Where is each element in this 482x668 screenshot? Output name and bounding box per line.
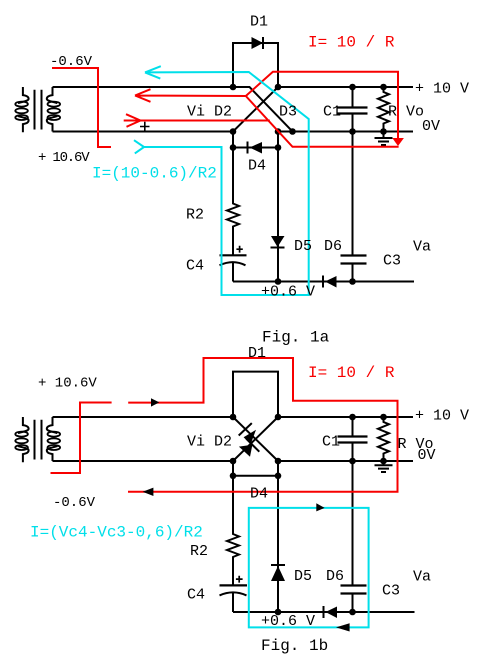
diode D5 (fig 1a) <box>271 236 285 248</box>
svg-text:+0.6 V: +0.6 V <box>261 613 315 630</box>
svg-text:Va: Va <box>413 239 431 256</box>
resistor R (fig 1b) <box>378 417 389 461</box>
wire D1 branch (fig 1a) <box>233 43 278 87</box>
svg-text:D1: D1 <box>248 345 266 362</box>
ground (fig 1b) <box>375 461 393 472</box>
svg-text:0V: 0V <box>422 118 440 135</box>
svg-text:D4: D4 <box>250 486 268 503</box>
svg-text:C4: C4 <box>186 258 204 275</box>
svg-text:R Vo: R Vo <box>388 104 424 121</box>
cyan arrow left (fig 1a) <box>145 66 161 78</box>
wire D5 branch (fig 1a) <box>277 148 279 282</box>
svg-text:I=(10-0.6)/R2: I=(10-0.6)/R2 <box>92 165 217 183</box>
plus sign near red arrow (fig 1a) <box>140 122 150 131</box>
resistor R (fig 1a) <box>378 87 389 132</box>
diode D6 (fig 1b) <box>324 606 338 618</box>
diode D4 (fig 1a) <box>248 142 263 154</box>
cyan loop around R2 branch (fig 1a) <box>144 72 309 295</box>
wire 0V rail (fig 1a) <box>278 131 413 133</box>
wire D4 rung (fig 1a) <box>233 147 278 149</box>
capacitor C3 (fig 1b) <box>341 586 367 613</box>
transformer T1 (fig 1a) <box>15 87 60 132</box>
svg-text:C3: C3 <box>383 253 401 270</box>
wire stubs to D4 wire (fig 1b) <box>233 461 278 476</box>
capacitor C4 (fig 1a) <box>220 246 247 282</box>
red bracket +10.6V/-0.6V (fig 1b) <box>51 403 112 474</box>
junction dots (fig 1b) <box>230 414 387 616</box>
svg-text:Fig. 1b: Fig. 1b <box>261 637 328 655</box>
diode D2 upper symbol on bridge (fig 1b) <box>239 423 256 444</box>
wire top-left rail (fig 1b) <box>53 416 234 418</box>
diode D6 (fig 1a) <box>323 276 337 288</box>
svg-text:C1: C1 <box>323 104 341 121</box>
resistor R2 (fig 1a) <box>227 148 239 255</box>
wire D1 branch (fig 1b) <box>233 372 278 417</box>
cyan loop rectangle (fig 1b) <box>249 508 369 628</box>
junction dots (fig 1a) <box>230 84 387 285</box>
svg-text:C4: C4 <box>187 587 205 604</box>
svg-text:C1: C1 <box>322 434 340 451</box>
svg-text:-0.6V: -0.6V <box>50 54 93 70</box>
wire bridge diagonal D2 (fig 1a) <box>233 87 278 132</box>
cyan arrow right on top edge (fig 1b) <box>316 503 324 511</box>
svg-text:R2: R2 <box>186 207 204 224</box>
wire D5 branch (fig 1b) <box>277 476 279 612</box>
svg-text:+ 10.6V: + 10.6V <box>38 150 90 166</box>
svg-text:+ 10 V: + 10 V <box>415 81 469 98</box>
cyan arrow right (fig 1a) <box>134 140 144 153</box>
red current line upper with left arrow (fig 1a) <box>135 89 246 102</box>
wire bottom rail (fig 1a) <box>233 281 414 283</box>
wire bridge diagonal NW-SE (fig 1b) <box>233 417 278 461</box>
svg-text:D6: D6 <box>326 568 344 585</box>
svg-text:+ 10 V: + 10 V <box>415 408 469 425</box>
ground (fig 1a) <box>375 132 393 146</box>
svg-text:-0.6V: -0.6V <box>53 495 96 511</box>
svg-text:Fig. 1a: Fig. 1a <box>262 329 330 347</box>
svg-text:0V: 0V <box>418 447 436 464</box>
wire stubs to D4 wire (fig 1a) <box>233 132 278 148</box>
resistor R2 (fig 1b) <box>227 476 239 585</box>
svg-text:D6: D6 <box>324 238 342 255</box>
diode D1 (fig 1a) <box>252 37 264 49</box>
svg-text:Vi D2: Vi D2 <box>187 434 232 451</box>
svg-text:C3: C3 <box>382 583 400 600</box>
wire +10V rail (fig 1b) <box>278 416 413 418</box>
diode D3 lower symbol on bridge (fig 1b) <box>239 439 259 457</box>
capacitor C3 (fig 1a) <box>341 256 367 282</box>
svg-text:D4: D4 <box>248 158 266 175</box>
red path over top to ground arrow (fig 1a) <box>246 72 404 146</box>
svg-text:D3: D3 <box>279 104 297 121</box>
wire top-left rail with bend diagonal to node (fig 1a) <box>53 87 293 132</box>
capacitor C4 (fig 1b) <box>220 576 248 612</box>
wire 0V rail (fig 1b) <box>278 460 413 462</box>
svg-text:D1: D1 <box>250 14 268 31</box>
capacitor C1 (fig 1b) <box>338 417 368 585</box>
red current line lower with right arrow (fig 1a) <box>124 114 270 127</box>
red path diagonal to 0V return (fig 1a) <box>246 96 399 147</box>
svg-text:+ 10.6V: + 10.6V <box>38 376 97 392</box>
wire mid-left rail (fig 1b) <box>53 460 234 462</box>
red loop over D1 to ground and back (fig 1b) <box>128 358 398 496</box>
wire bottom rail (fig 1b) <box>233 611 415 613</box>
capacitor C1 (fig 1a) <box>338 87 368 255</box>
wire +10V rail (fig 1a) <box>278 86 413 88</box>
svg-text:I=(Vc4-Vc3-0,6)/R2: I=(Vc4-Vc3-0,6)/R2 <box>30 524 203 542</box>
cyan arrow left on bottom edge (fig 1b) <box>336 623 350 631</box>
wire bridge diagonal NE-SW (fig 1b) <box>233 417 278 461</box>
svg-text:Vi D2: Vi D2 <box>187 104 232 121</box>
svg-text:R2: R2 <box>190 543 208 560</box>
svg-text:Va: Va <box>413 569 431 586</box>
wire D4 rung (fig 1b) <box>233 475 278 477</box>
svg-text:I= 10 / R: I= 10 / R <box>308 34 395 52</box>
diode D5 (fig 1b) <box>271 565 285 581</box>
red bracket -0.6V/+10.6V (fig 1a) <box>52 68 111 147</box>
svg-text:+0.6 V: +0.6 V <box>261 284 315 301</box>
svg-text:D5: D5 <box>294 238 312 255</box>
transformer T1 (fig 1b) <box>15 417 60 462</box>
svg-text:I= 10 / R: I= 10 / R <box>308 364 395 382</box>
wire mid-left rail (fig 1a) <box>53 131 234 133</box>
svg-text:D5: D5 <box>294 568 312 585</box>
